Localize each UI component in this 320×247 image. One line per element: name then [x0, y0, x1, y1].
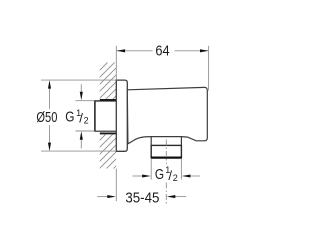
- svg-text:G: G: [155, 167, 164, 183]
- body of wall union: [127, 87, 207, 143]
- thick thread lines in wall: [100, 99, 117, 101]
- thick thread end line: [151, 157, 182, 159]
- svg-text:2: 2: [173, 173, 178, 183]
- dimension 64 (top): [117, 44, 209, 60]
- inlet socket G1/2 behind wall: [94, 100, 116, 133]
- dimension G1/2 (left, socket) arrows: [76, 84, 95, 148]
- svg-text:2: 2: [84, 115, 89, 125]
- svg-text:/: /: [79, 111, 83, 126]
- svg-text:G: G: [65, 110, 74, 126]
- dimension Ø50 (left, flange diameter): [41, 80, 116, 151]
- label Ø50 G1/2 (left): [36, 108, 88, 126]
- svg-text:Ø50: Ø50: [36, 110, 57, 126]
- svg-text:64: 64: [155, 44, 169, 60]
- dimension G1/2 (bottom, outlet thread): [133, 159, 201, 183]
- outlet nipple neck: [150, 137, 152, 146]
- centerline of outlet (dash-dot): [165, 140, 167, 205]
- extension line right of body for 64 dim: [208, 46, 210, 91]
- extension lines socket: [76, 100, 95, 102]
- escutcheon flange (Ø50): [116, 80, 127, 151]
- wall face line (extension line for 64 and 35-45 dims): [115, 46, 117, 80]
- dimension 35-45 (bottom, wall to outlet axis): [97, 190, 186, 206]
- svg-text:35-45: 35-45: [125, 190, 159, 206]
- outlet thread G1/2 rectangle: [151, 145, 181, 157]
- wall hatch upper section: [92, 40, 130, 134]
- wall hatch lower section: [92, 110, 130, 197]
